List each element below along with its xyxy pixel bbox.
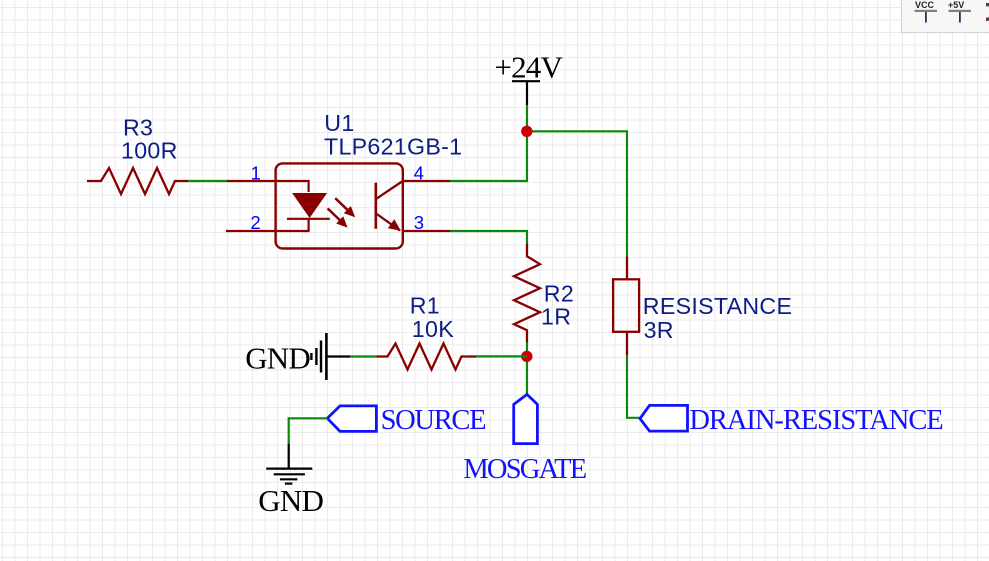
wire RESISTANCE to DRAIN flag xyxy=(627,355,640,418)
U1 phototransistor xyxy=(376,182,402,231)
panel VCC symbol xyxy=(915,0,938,23)
svg-text:SOURCE: SOURCE xyxy=(381,405,486,436)
U1 pin 3 lead xyxy=(403,230,451,232)
U1 pin 1 lead xyxy=(227,180,276,182)
svg-text:+5V: +5V xyxy=(948,0,964,10)
svg-text:100R: 100R xyxy=(121,138,178,164)
panel +5V symbol xyxy=(948,0,971,23)
svg-text:RESISTANCE: RESISTANCE xyxy=(643,293,792,319)
svg-text:GND: GND xyxy=(258,483,323,518)
wire SOURCE to ground xyxy=(289,418,328,443)
resistor RESISTANCE body xyxy=(613,279,639,332)
svg-text:3: 3 xyxy=(414,212,424,233)
svg-text:R2: R2 xyxy=(544,280,574,306)
wire +24V to pin 4 xyxy=(450,105,527,181)
svg-text:1R: 1R xyxy=(541,304,571,330)
resistor R1 xyxy=(376,344,476,370)
resistor R2 xyxy=(514,244,540,343)
svg-text:DRAIN-RESISTANCE: DRAIN-RESISTANCE xyxy=(689,405,942,436)
wire GND to R1 xyxy=(350,355,376,357)
wire R1 to gate node xyxy=(476,355,527,357)
net flag MOSGATE xyxy=(514,394,538,443)
svg-text:TLP621GB-1: TLP621GB-1 xyxy=(324,134,462,160)
junction at gate node xyxy=(521,351,532,362)
svg-text:3R: 3R xyxy=(644,317,674,343)
wire R2 to MOSGATE node xyxy=(526,342,528,394)
U1 pin 4 lead xyxy=(403,180,451,182)
ground symbol (earth) xyxy=(266,444,312,484)
optocoupler U1 box xyxy=(276,163,403,248)
resistor R3 xyxy=(87,168,188,194)
svg-text:U1: U1 xyxy=(324,110,354,136)
panel partial icon at right edge xyxy=(986,3,989,21)
net flag DRAIN-RESISTANCE xyxy=(640,405,688,431)
svg-text:4: 4 xyxy=(414,162,424,183)
wire +24V to resistance branch xyxy=(527,131,627,256)
junction at +24V node xyxy=(521,126,532,137)
U1 LED xyxy=(276,181,330,231)
resistor RESISTANCE leads xyxy=(626,257,628,356)
wire pin 3 to R2 xyxy=(450,231,527,244)
net flag SOURCE xyxy=(327,406,376,432)
svg-text:2: 2 xyxy=(250,212,260,233)
wire R3 to U1 pin 1 xyxy=(188,180,227,182)
toolbar panel top right xyxy=(902,0,989,33)
ground flag GND (mid) xyxy=(311,333,350,380)
power +24V symbol xyxy=(512,81,540,105)
U1 light arrow 2 xyxy=(328,208,348,227)
svg-text:GND: GND xyxy=(245,341,310,376)
svg-text:+24V: +24V xyxy=(494,50,563,85)
svg-text:1: 1 xyxy=(251,162,261,183)
svg-text:10K: 10K xyxy=(412,316,454,342)
U1 light arrow 1 xyxy=(335,198,355,217)
svg-text:VCC: VCC xyxy=(915,0,935,10)
svg-text:R1: R1 xyxy=(410,293,440,319)
svg-text:MOSGATE: MOSGATE xyxy=(463,454,585,485)
U1 pin 2 lead xyxy=(226,230,276,232)
